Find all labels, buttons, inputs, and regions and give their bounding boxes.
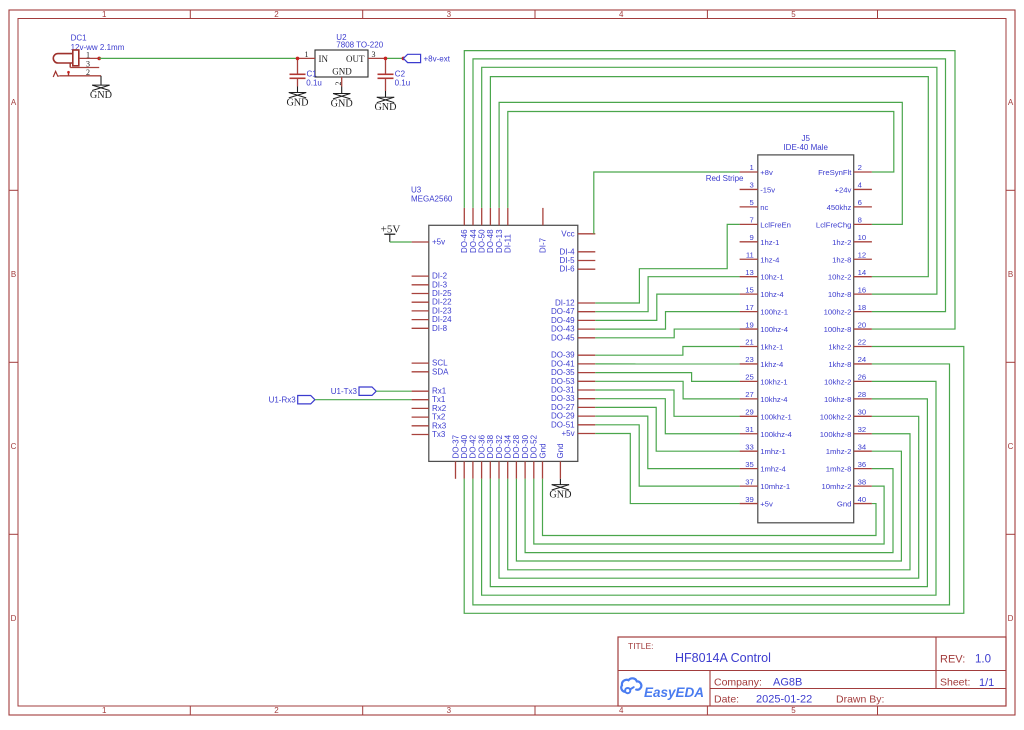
svg-text:29: 29 — [745, 408, 754, 417]
svg-text:A: A — [1008, 98, 1014, 107]
svg-text:DO-50: DO-50 — [478, 229, 487, 253]
svg-text:12: 12 — [858, 250, 867, 259]
svg-text:100hz-2: 100hz-2 — [824, 308, 852, 317]
svg-text:20: 20 — [858, 320, 867, 329]
svg-text:DI-2: DI-2 — [432, 272, 448, 281]
svg-text:100hz-4: 100hz-4 — [760, 325, 789, 334]
svg-text:1mhz-8: 1mhz-8 — [826, 465, 852, 474]
svg-text:37: 37 — [745, 477, 754, 486]
svg-text:27: 27 — [745, 390, 754, 399]
svg-text:10khz-2: 10khz-2 — [824, 377, 851, 386]
svg-text:2: 2 — [858, 163, 862, 172]
svg-text:D: D — [1008, 614, 1014, 623]
svg-text:10hz-8: 10hz-8 — [828, 290, 852, 299]
svg-text:DI-7: DI-7 — [539, 237, 548, 253]
svg-text:DO-51: DO-51 — [551, 420, 575, 429]
svg-text:DO-46: DO-46 — [460, 229, 469, 253]
svg-text:HF8014A Control: HF8014A Control — [675, 651, 771, 665]
svg-text:+5v: +5v — [561, 429, 574, 438]
svg-text:3: 3 — [372, 50, 376, 59]
svg-text:DO-47: DO-47 — [551, 307, 575, 316]
svg-text:+8v-ext: +8v-ext — [424, 54, 451, 63]
svg-text:DI-4: DI-4 — [559, 247, 575, 256]
svg-text:0.1u: 0.1u — [306, 78, 322, 87]
svg-text:5: 5 — [791, 10, 796, 19]
svg-text:36: 36 — [858, 460, 867, 469]
svg-text:Rx3: Rx3 — [432, 421, 447, 430]
svg-text:DO-32: DO-32 — [495, 434, 504, 458]
svg-text:30: 30 — [858, 408, 867, 417]
svg-text:DO-37: DO-37 — [451, 434, 460, 458]
svg-text:DO-29: DO-29 — [551, 412, 575, 421]
svg-text:10hz-2: 10hz-2 — [828, 273, 852, 282]
svg-text:28: 28 — [858, 390, 867, 399]
svg-text:DO-48: DO-48 — [486, 229, 495, 253]
svg-text:OUT: OUT — [346, 54, 365, 64]
svg-text:GND: GND — [332, 66, 352, 76]
svg-text:15: 15 — [745, 285, 754, 294]
svg-text:1khz-1: 1khz-1 — [760, 343, 783, 352]
svg-text:LclFreEn: LclFreEn — [760, 220, 791, 229]
svg-text:17: 17 — [745, 303, 754, 312]
svg-text:C1: C1 — [307, 70, 318, 79]
svg-text:+24v: +24v — [835, 185, 852, 194]
svg-text:DI-8: DI-8 — [432, 324, 448, 333]
svg-text:1: 1 — [750, 163, 754, 172]
svg-text:MEGA2560: MEGA2560 — [411, 195, 453, 204]
svg-text:31: 31 — [745, 425, 754, 434]
svg-text:DI-22: DI-22 — [432, 298, 452, 307]
svg-text:1mhz-2: 1mhz-2 — [826, 447, 852, 456]
svg-text:DO-43: DO-43 — [551, 325, 575, 334]
svg-text:Company:: Company: — [714, 677, 762, 689]
svg-text:+5V: +5V — [381, 223, 401, 235]
svg-text:1/1: 1/1 — [979, 677, 994, 689]
svg-text:0.1u: 0.1u — [395, 78, 411, 87]
svg-text:Tx1: Tx1 — [432, 395, 446, 404]
svg-text:40: 40 — [858, 495, 867, 504]
svg-text:C: C — [1008, 442, 1014, 451]
svg-text:DI-5: DI-5 — [559, 256, 575, 265]
svg-text:Sheet:: Sheet: — [940, 677, 970, 689]
svg-text:1: 1 — [102, 10, 107, 19]
svg-text:Gnd: Gnd — [538, 443, 547, 458]
svg-text:26: 26 — [858, 373, 867, 382]
svg-text:DI-23: DI-23 — [432, 306, 452, 315]
svg-text:10hz-1: 10hz-1 — [760, 273, 784, 282]
svg-text:DO-39: DO-39 — [551, 351, 575, 360]
svg-text:C: C — [11, 442, 17, 451]
svg-text:TITLE:: TITLE: — [628, 641, 654, 651]
svg-text:35: 35 — [745, 460, 754, 469]
svg-text:GND: GND — [549, 490, 571, 501]
svg-text:EasyEDA: EasyEDA — [644, 685, 704, 700]
svg-text:C2: C2 — [395, 70, 406, 79]
svg-text:DC1: DC1 — [71, 34, 88, 43]
svg-text:D: D — [11, 614, 17, 623]
svg-text:U3: U3 — [411, 186, 422, 195]
svg-text:DI-11: DI-11 — [504, 233, 513, 253]
svg-text:13: 13 — [745, 268, 754, 277]
svg-text:Drawn By:: Drawn By: — [836, 694, 884, 706]
svg-text:4: 4 — [858, 181, 863, 190]
svg-text:34: 34 — [858, 442, 867, 451]
svg-text:10khz-4: 10khz-4 — [760, 395, 788, 404]
svg-text:DO-42: DO-42 — [469, 434, 478, 458]
svg-text:B: B — [1008, 270, 1013, 279]
svg-text:1hz-8: 1hz-8 — [832, 255, 851, 264]
svg-text:1: 1 — [305, 50, 309, 59]
svg-text:19: 19 — [745, 320, 754, 329]
svg-text:AG8B: AG8B — [773, 677, 802, 689]
svg-text:10khz-8: 10khz-8 — [824, 395, 851, 404]
svg-text:Tx2: Tx2 — [432, 413, 446, 422]
svg-text:DO-31: DO-31 — [551, 386, 575, 395]
svg-text:DO-52: DO-52 — [530, 434, 539, 458]
svg-text:DI-12: DI-12 — [555, 299, 575, 308]
svg-text:SDA: SDA — [432, 367, 449, 376]
svg-text:1mhz-1: 1mhz-1 — [760, 447, 786, 456]
svg-text:DI-3: DI-3 — [432, 280, 448, 289]
svg-text:39: 39 — [745, 495, 754, 504]
svg-text:2: 2 — [86, 68, 90, 77]
svg-text:5: 5 — [791, 706, 796, 715]
svg-text:DO-40: DO-40 — [460, 434, 469, 458]
svg-text:4: 4 — [619, 706, 624, 715]
svg-text:DI-6: DI-6 — [559, 265, 575, 274]
svg-text:Gnd: Gnd — [837, 500, 852, 509]
svg-text:LclFreChg: LclFreChg — [816, 220, 851, 229]
svg-text:DO-34: DO-34 — [504, 434, 513, 458]
svg-text:100khz-2: 100khz-2 — [820, 412, 852, 421]
svg-text:1: 1 — [86, 50, 90, 59]
svg-text:22: 22 — [858, 338, 867, 347]
svg-text:FreSynFlt: FreSynFlt — [818, 168, 852, 177]
svg-text:Vcc: Vcc — [561, 229, 574, 238]
svg-text:nc: nc — [760, 203, 768, 212]
svg-text:1.0: 1.0 — [975, 654, 991, 666]
svg-text:Rx2: Rx2 — [432, 404, 447, 413]
svg-text:Date:: Date: — [714, 694, 739, 706]
svg-text:B: B — [11, 270, 16, 279]
svg-text:2: 2 — [274, 706, 279, 715]
svg-text:450khz: 450khz — [827, 203, 852, 212]
svg-text:25: 25 — [745, 373, 754, 382]
svg-text:10khz-1: 10khz-1 — [760, 377, 787, 386]
svg-text:10: 10 — [858, 233, 867, 242]
svg-text:1hz-2: 1hz-2 — [832, 238, 851, 247]
svg-text:23: 23 — [745, 355, 754, 364]
svg-text:IN: IN — [319, 54, 329, 64]
svg-text:8: 8 — [858, 216, 862, 225]
svg-text:DI-24: DI-24 — [432, 315, 452, 324]
svg-text:DO-45: DO-45 — [551, 333, 575, 342]
svg-text:33: 33 — [745, 442, 754, 451]
svg-text:7: 7 — [750, 216, 754, 225]
svg-text:U1-Rx3: U1-Rx3 — [269, 396, 297, 405]
svg-text:1khz-2: 1khz-2 — [828, 343, 851, 352]
svg-text:REV:: REV: — [940, 654, 965, 666]
svg-text:10hz-4: 10hz-4 — [760, 290, 784, 299]
svg-text:DO-33: DO-33 — [551, 394, 575, 403]
svg-text:9: 9 — [750, 233, 754, 242]
svg-text:+5v: +5v — [760, 500, 773, 509]
svg-text:10mhz-2: 10mhz-2 — [821, 482, 851, 491]
svg-text:U1-Tx3: U1-Tx3 — [331, 387, 358, 396]
svg-text:DI-25: DI-25 — [432, 289, 452, 298]
svg-text:+8v: +8v — [760, 168, 773, 177]
svg-text:GND: GND — [90, 90, 112, 101]
svg-text:4: 4 — [619, 10, 624, 19]
svg-text:3: 3 — [447, 706, 452, 715]
svg-text:DO-38: DO-38 — [486, 434, 495, 458]
svg-text:DO-35: DO-35 — [551, 368, 575, 377]
svg-text:GND: GND — [374, 102, 396, 113]
svg-text:DO-44: DO-44 — [469, 229, 478, 253]
svg-text:14: 14 — [858, 268, 867, 277]
svg-text:1: 1 — [102, 706, 107, 715]
svg-text:6: 6 — [858, 198, 862, 207]
svg-text:11: 11 — [746, 250, 754, 259]
svg-text:2025-01-22: 2025-01-22 — [756, 694, 812, 706]
svg-text:38: 38 — [858, 477, 867, 486]
svg-text:100hz-1: 100hz-1 — [760, 308, 788, 317]
svg-text:DO-28: DO-28 — [512, 434, 521, 458]
svg-text:16: 16 — [858, 285, 867, 294]
svg-text:+5v: +5v — [432, 238, 445, 247]
svg-text:DO-53: DO-53 — [551, 377, 575, 386]
svg-text:3: 3 — [447, 10, 452, 19]
svg-text:GND: GND — [286, 98, 308, 109]
svg-text:18: 18 — [858, 303, 867, 312]
svg-text:-15v: -15v — [760, 185, 775, 194]
svg-text:2: 2 — [334, 82, 343, 86]
svg-text:DO-13: DO-13 — [495, 229, 504, 253]
svg-text:DO-41: DO-41 — [551, 359, 575, 368]
svg-text:A: A — [11, 98, 17, 107]
svg-text:1khz-4: 1khz-4 — [760, 360, 784, 369]
svg-text:3: 3 — [750, 181, 754, 190]
svg-text:Red Stripe: Red Stripe — [706, 174, 744, 183]
svg-text:IDE-40 Male: IDE-40 Male — [783, 143, 828, 152]
svg-text:32: 32 — [858, 425, 867, 434]
svg-text:5: 5 — [750, 198, 754, 207]
svg-text:1khz-8: 1khz-8 — [828, 360, 851, 369]
svg-text:7808 TO-220: 7808 TO-220 — [336, 40, 383, 49]
svg-text:DO-27: DO-27 — [551, 403, 575, 412]
svg-text:SCL: SCL — [432, 359, 448, 368]
svg-text:24: 24 — [858, 355, 867, 364]
svg-text:DO-30: DO-30 — [521, 434, 530, 458]
svg-text:100khz-4: 100khz-4 — [760, 430, 792, 439]
svg-text:J5: J5 — [801, 134, 810, 143]
svg-text:1mhz-4: 1mhz-4 — [760, 465, 786, 474]
svg-text:DO-49: DO-49 — [551, 316, 575, 325]
svg-text:2: 2 — [274, 10, 279, 19]
svg-text:DO-36: DO-36 — [477, 434, 486, 458]
svg-text:100khz-1: 100khz-1 — [760, 412, 792, 421]
svg-text:1hz-4: 1hz-4 — [760, 255, 780, 264]
svg-text:1hz-1: 1hz-1 — [760, 238, 779, 247]
svg-text:21: 21 — [745, 338, 754, 347]
svg-text:100khz-8: 100khz-8 — [820, 430, 852, 439]
svg-text:GND: GND — [331, 99, 353, 110]
svg-text:10mhz-1: 10mhz-1 — [760, 482, 790, 491]
svg-text:Tx3: Tx3 — [432, 430, 446, 439]
svg-text:100hz-8: 100hz-8 — [824, 325, 852, 334]
svg-text:Gnd: Gnd — [556, 443, 565, 458]
